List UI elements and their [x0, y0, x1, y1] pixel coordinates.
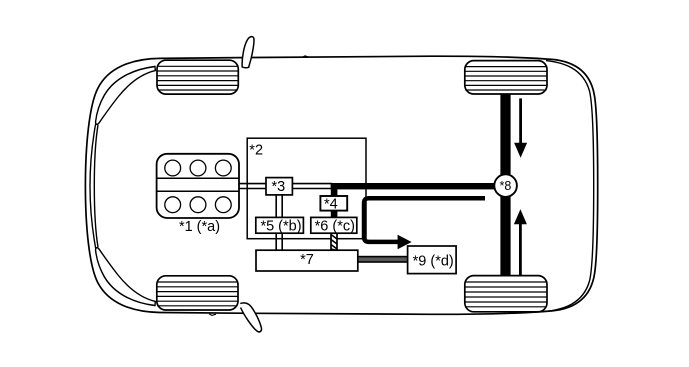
wheel front-right (rear top)	[465, 61, 547, 94]
svg-text:*2: *2	[249, 142, 263, 158]
mirror bottom	[240, 303, 261, 332]
box *3	[266, 178, 292, 195]
box *5 (*b)	[256, 217, 304, 234]
main propeller shaft (thick)	[331, 183, 506, 189]
thin line from *8 to arrow path	[364, 198, 485, 242]
front bumper inner line	[90, 67, 155, 306]
wheel rear-right (rear bottom)	[465, 276, 547, 312]
box *2 (transaxle assembly)	[247, 138, 366, 239]
shaft *3 to transfer (double line)	[292, 184, 332, 189]
black stub shaft to *4	[331, 188, 338, 197]
windshield leaf top	[96, 67, 156, 125]
gray link *7 to *9	[358, 257, 408, 262]
rear differential *8	[494, 174, 517, 197]
front fender line middle	[94, 125, 98, 247]
bottom edge notch	[209, 314, 216, 316]
rear hatch inner line	[546, 61, 594, 312]
top edge notch	[302, 56, 309, 58]
svg-text:*1 (*a): *1 (*a)	[179, 219, 220, 235]
shaft *3 down to *5 (double line)	[276, 195, 282, 219]
svg-text:*3: *3	[271, 179, 285, 195]
svg-text:*7: *7	[300, 252, 314, 268]
engine input shaft (double line)	[239, 184, 268, 189]
svg-text:*8: *8	[499, 179, 511, 193]
svg-text:*6 (*c): *6 (*c)	[315, 218, 355, 234]
box *7	[256, 250, 358, 271]
arrow up (rear of rear diff)	[514, 209, 527, 275]
windshield leaf bottom	[96, 248, 156, 306]
box *4	[320, 196, 347, 213]
black stub *4 to *6	[331, 210, 338, 219]
box *9 (*d)	[408, 246, 457, 274]
box *6 (*c)	[311, 217, 357, 234]
hatched link *6 to *7	[331, 233, 337, 251]
rear axle shaft	[500, 94, 510, 277]
car body outline	[85, 56, 597, 314]
svg-text:*9 (*d): *9 (*d)	[413, 254, 454, 270]
arrow down (front of rear diff)	[514, 98, 527, 157]
svg-text:*5 (*b): *5 (*b)	[260, 218, 301, 234]
mirror top	[242, 37, 254, 68]
engine *1	[157, 154, 239, 218]
wheel rear-left	[157, 276, 238, 310]
arrowhead to *9	[398, 235, 412, 249]
shaft *5 down to *7 (double line)	[276, 233, 282, 251]
svg-text:*4: *4	[324, 197, 338, 213]
wheel front-left	[157, 60, 238, 94]
